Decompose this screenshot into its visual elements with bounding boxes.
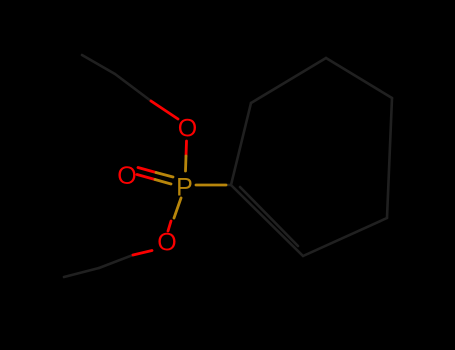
- wire top ethyl O-CH2 gray half: [115, 74, 151, 101]
- svg-text:P: P: [176, 173, 193, 201]
- wire top ethyl CH2-CH3: [82, 55, 115, 74]
- wire P-C bond gray tip: [224, 184, 231, 187]
- svg-text:O: O: [178, 114, 197, 142]
- wire ring edge C-D: [326, 58, 392, 98]
- wire ring edge F-A (double bond outer line): [231, 185, 303, 256]
- wire P to top O olive half: [184, 156, 187, 171]
- red bond halves near oxygens: [133, 101, 187, 255]
- svg-text:O: O: [117, 162, 136, 190]
- wire ring edge D-E: [387, 98, 392, 218]
- wire P=O upper line olive half: [156, 173, 173, 178]
- wire top O to P red part: [185, 141, 188, 156]
- wire double bond inner line: [240, 187, 298, 246]
- cyclohexene ring (carbon skeleton, dark gray): [224, 58, 392, 256]
- wire bottom ethyl O-CH2 gray half: [99, 255, 133, 268]
- wire P=O lower line olive half: [155, 180, 171, 185]
- wire bottom ethyl CH2-CH3: [64, 268, 99, 277]
- wire P=O lower line red half: [137, 175, 155, 180]
- olive bond halves near phosphorus: [155, 156, 226, 218]
- wire bottom O to P red part: [168, 221, 171, 231]
- ethyl chain tails (dark gray): [64, 55, 151, 277]
- wire P=O upper line red half: [138, 168, 156, 173]
- wire P to ring carbon bond: [196, 184, 226, 187]
- wire bottom O to CH2 red half: [133, 251, 152, 256]
- wire top O to CH2 red half: [151, 101, 178, 119]
- wire P to bottom O olive half: [174, 198, 181, 218]
- wire ring edge A-B: [231, 103, 251, 185]
- wire ring edge E-F: [303, 218, 387, 256]
- atom labels: [117, 114, 197, 256]
- svg-text:O: O: [157, 229, 176, 257]
- wire ring edge B-C: [251, 58, 326, 103]
